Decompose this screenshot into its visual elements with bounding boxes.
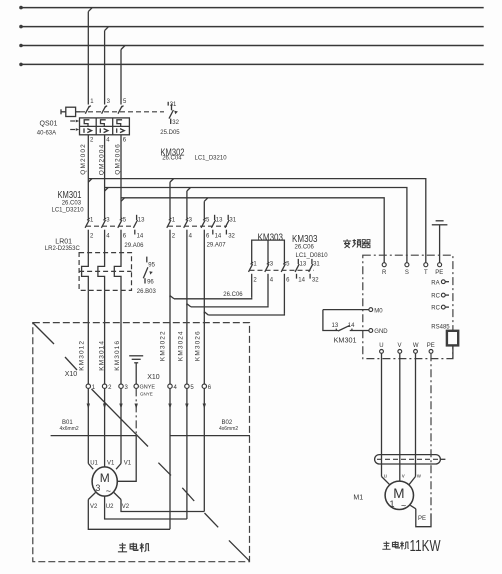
cable shield stadium — [375, 455, 446, 464]
svg-text:40-63A: 40-63A — [37, 130, 56, 136]
contactor KM302 pole 1 contact — [167, 218, 172, 297]
label 主电机 (main motor) — [118, 543, 149, 552]
svg-text:X10: X10 — [65, 371, 78, 378]
terminal X10-6 — [202, 384, 212, 391]
terminal X10-G GNYE — [134, 384, 155, 397]
wire V to motor M1 — [400, 353, 405, 481]
svg-text:KM3014: KM3014 — [98, 340, 105, 371]
svg-text:V2: V2 — [90, 504, 98, 510]
terminal RC 1 — [431, 293, 449, 300]
wire W to motor M1 — [409, 353, 421, 484]
svg-text:14: 14 — [298, 278, 305, 284]
contactor KM303 aux contact 31-32 — [309, 259, 313, 279]
magnetic release I> pole 3 — [117, 128, 125, 132]
svg-text:V2: V2 — [122, 504, 130, 510]
breaker QS01 trip unit box — [80, 118, 130, 135]
thermal release symbol pole 3 — [117, 120, 122, 127]
RS485 connector block — [447, 331, 458, 346]
contactor KM303 aux contact 13-14 — [295, 259, 299, 279]
svg-text:26.C06: 26.C06 — [223, 292, 243, 298]
wire X10-5 down with arrow — [185, 388, 188, 519]
svg-text:LC1_D3210: LC1_D3210 — [195, 156, 228, 162]
LR01 heater element pole 3 — [114, 253, 121, 291]
wire motor U2 return to X10-5 — [105, 496, 187, 519]
svg-text:13: 13 — [300, 262, 307, 268]
svg-text:v: v — [402, 474, 405, 480]
svg-text:32: 32 — [228, 233, 235, 239]
svg-text:KM301: KM301 — [58, 190, 82, 201]
svg-text:31: 31 — [170, 102, 177, 108]
wire GNYE ground dash-dot to motor frame — [118, 388, 138, 481]
svg-text:W: W — [413, 343, 419, 349]
svg-text:11KW: 11KW — [410, 538, 442, 555]
svg-text:KM303: KM303 — [258, 232, 284, 243]
inverter dash-dot box — [363, 255, 453, 358]
svg-text:31: 31 — [229, 218, 236, 224]
KM301 aux contact 13-14 in M0 loop — [323, 310, 369, 331]
wire PE dash-dot to motor M1 — [410, 353, 431, 526]
terminal X10-5 — [185, 384, 195, 391]
magnetic release I> pole 2 — [100, 128, 108, 132]
svg-text:w: w — [416, 474, 421, 480]
svg-text:U1: U1 — [90, 460, 98, 466]
svg-text:QS01: QS01 — [40, 121, 58, 128]
breaker QS01 mechanical link dashed — [80, 111, 164, 113]
wire drop from L1 to QS01 pole 1 — [88, 8, 92, 105]
svg-text:31: 31 — [313, 262, 320, 268]
wire KM303 pin2 to KM3022 (26.C06) — [170, 296, 252, 299]
svg-text:1: 1 — [390, 499, 395, 509]
terminal RC 2 — [431, 305, 449, 312]
wire KM3026 down to X10-6 — [203, 312, 205, 384]
label 主电机 11KW — [382, 538, 441, 555]
cable B02 label — [219, 420, 238, 432]
svg-text:RA: RA — [431, 280, 439, 286]
svg-text:25.D05: 25.D05 — [160, 130, 180, 136]
svg-text:KM3022: KM3022 — [160, 330, 167, 361]
KM301 linkage dashes — [86, 225, 133, 227]
terminal W — [413, 343, 419, 353]
wire branch down to KM302 pole 2 — [187, 188, 191, 219]
KM302 linkage dashes — [168, 225, 227, 227]
wire bus L3 — [19, 44, 484, 48]
svg-text:26.C03: 26.C03 — [62, 201, 82, 207]
wire X10-2 to motor V1 with arrow — [103, 388, 106, 467]
svg-text:13: 13 — [138, 218, 145, 224]
contactor KM301 pole 1 contact — [85, 218, 90, 253]
LR01 heater element pole 2 — [98, 253, 105, 291]
label 变频器 (inverter) — [343, 239, 370, 248]
svg-text:26.B03: 26.B03 — [137, 289, 157, 295]
terminal GND — [369, 329, 388, 336]
svg-text:M: M — [393, 486, 404, 501]
contactor KM302 aux contact 13-14 — [211, 215, 215, 235]
contactor KM302 pole 3 contact — [201, 218, 206, 313]
motor M1 11KW — [385, 481, 413, 510]
svg-text:4x6mm2: 4x6mm2 — [60, 426, 79, 432]
svg-text:M: M — [100, 471, 110, 485]
terminal RA — [431, 280, 449, 286]
contactor KM302 aux contact 31-32 — [225, 215, 229, 235]
contactor KM303 pole 3 contact — [281, 262, 286, 313]
thermal release symbol pole 2 — [101, 120, 106, 127]
svg-text:KM303: KM303 — [292, 234, 318, 245]
contactor KM303 star bus — [252, 240, 285, 263]
wire branch B from pole2 wire to inverter S — [105, 188, 407, 263]
svg-text:29.A06: 29.A06 — [124, 243, 144, 249]
motor M 3~ main — [92, 467, 117, 496]
contactor KM301 pole 2 contact — [101, 218, 106, 253]
svg-text:X10: X10 — [147, 374, 160, 381]
terminal S — [405, 263, 409, 277]
svg-text:RC: RC — [431, 294, 440, 300]
wire KM3014 — [104, 290, 106, 384]
svg-text:u: u — [384, 474, 387, 480]
svg-text:KM3012: KM3012 — [79, 340, 86, 371]
enclosure diagonal segment 2 — [65, 357, 77, 370]
wire drop from L2 to QS01 pole 2 — [105, 27, 109, 105]
svg-text:~: ~ — [401, 501, 406, 511]
svg-text:KM3016: KM3016 — [114, 340, 121, 371]
svg-text:R: R — [382, 270, 387, 276]
terminal PE top — [435, 263, 443, 277]
svg-text:M1: M1 — [353, 495, 363, 502]
cable B01 label — [60, 420, 79, 432]
label pointers to trip rows — [70, 120, 79, 131]
breaker QS01 handle — [61, 107, 80, 116]
terminal X10-3 — [119, 384, 129, 391]
wire bus L2 — [19, 25, 484, 29]
enclosure diagonal segment 1 — [33, 323, 54, 344]
enclosure diagonal segment 3 — [92, 389, 149, 447]
svg-text:13: 13 — [332, 323, 339, 329]
enclosure diagonal segment 6 — [205, 513, 219, 527]
contactor KM301 aux contact 13-14 — [133, 215, 137, 235]
svg-text:26.C06: 26.C06 — [295, 245, 315, 251]
wire X10-4 down with arrow — [168, 388, 171, 529]
LR01 heater element pole 1 — [82, 253, 89, 291]
wire QM2002 — [87, 135, 89, 219]
svg-text:U: U — [379, 343, 383, 349]
svg-text:96: 96 — [147, 280, 154, 286]
terminal PE bottom — [427, 343, 435, 353]
svg-text:KM3024: KM3024 — [177, 330, 184, 361]
svg-text:V: V — [398, 343, 402, 349]
wire KM3012 — [87, 290, 89, 384]
enclosure diagonal segment 5 — [182, 488, 194, 501]
terminal X10-4 — [168, 384, 178, 391]
breaker QS01 pole 3 contact — [118, 106, 124, 114]
svg-text:LC1_D3210: LC1_D3210 — [52, 208, 85, 214]
contactor KM303 pole 2 contact — [265, 262, 270, 305]
magnetic release I> pole 1 — [84, 128, 92, 132]
wire bus L4 — [19, 63, 484, 67]
wire X10-3 to motor W1 with arrow — [116, 388, 123, 469]
svg-text:LR01: LR01 — [55, 239, 72, 246]
svg-text:QM2006: QM2006 — [114, 143, 121, 175]
enclosure diagonal segment 7 — [229, 540, 249, 560]
wire KM303 pin6 to KM3026 — [204, 312, 284, 315]
svg-text:PE: PE — [427, 343, 435, 349]
terminal U — [379, 343, 383, 353]
solid edge below RS485 — [452, 345, 454, 358]
svg-text:~: ~ — [106, 486, 111, 496]
terminal R — [382, 263, 387, 277]
svg-text:GNYE: GNYE — [140, 385, 156, 391]
ground symbol above inverter PE — [432, 221, 448, 263]
svg-text:PE: PE — [435, 270, 443, 276]
wire X10-6 down with arrow — [203, 388, 206, 511]
wire U to motor M1 — [382, 353, 390, 484]
wire KM3022 down to X10-4 — [169, 296, 171, 384]
svg-text:32: 32 — [172, 120, 179, 126]
svg-text:13: 13 — [216, 218, 223, 224]
wire QM2006 — [120, 135, 122, 219]
wire branch down to KM302 pole 3 — [204, 198, 208, 219]
contactor KM301 pole 3 contact — [118, 218, 123, 253]
terminal X10-2 — [102, 384, 112, 391]
svg-text:M0: M0 — [374, 308, 383, 314]
terminal V — [398, 343, 402, 353]
LR01 linkage dashes — [79, 270, 131, 272]
contactor KM302 pole 2 contact — [184, 218, 189, 305]
svg-text:U2: U2 — [106, 504, 114, 510]
svg-text:26.C04: 26.C04 — [162, 156, 182, 162]
svg-text:KM3026: KM3026 — [195, 330, 202, 361]
svg-text:S: S — [405, 270, 409, 276]
wire KM303 pin4 to KM3024 — [187, 304, 268, 307]
svg-text:4x6mm2: 4x6mm2 — [219, 426, 238, 432]
ground symbol above X10 — [129, 356, 143, 384]
terminal T — [424, 263, 428, 277]
wire motor V2 return to X10-6 — [114, 493, 204, 512]
svg-text:QM2004: QM2004 — [98, 144, 105, 176]
wire bus L1 — [19, 6, 484, 10]
svg-text:PE: PE — [418, 516, 426, 522]
breaker QS01 aux contact 31-32 — [168, 102, 173, 124]
breaker QS01 pole 2 contact — [102, 106, 108, 114]
svg-text:3: 3 — [95, 483, 100, 493]
wire KM3024 down to X10-5 — [186, 304, 188, 384]
LR01 aux contact 95-96 — [143, 257, 153, 284]
wire KM3016 — [120, 290, 122, 384]
wire X10-1 to motor U1 with arrow — [87, 388, 94, 469]
svg-text:KM301: KM301 — [334, 335, 357, 344]
breaker QS01 pole 1 contact — [85, 106, 91, 114]
enclosure diagonal segment 4 — [158, 463, 171, 476]
terminal X10-1 — [86, 384, 96, 391]
thermal release symbol pole 1 — [84, 120, 89, 127]
svg-text:GNYE: GNYE — [140, 392, 153, 397]
svg-text:QM2002: QM2002 — [80, 143, 87, 175]
cable B01 line — [51, 435, 137, 437]
svg-text:32: 32 — [312, 278, 319, 284]
svg-text:95: 95 — [148, 263, 155, 269]
cable B02 line — [170, 435, 251, 437]
svg-text:V1: V1 — [124, 460, 132, 466]
wire branch down to KM302 pole 1 — [170, 179, 174, 219]
wire branch C from pole3 wire to inverter R — [121, 198, 384, 263]
wire drop from L3 to QS01 pole 3 — [121, 46, 125, 105]
wire motor W2 return to X10-4 — [88, 493, 170, 530]
KM303 linkage dashes — [250, 269, 315, 271]
wire QM2004 — [104, 135, 106, 219]
svg-text:GND: GND — [374, 329, 388, 335]
contactor KM303 pole 1 contact — [249, 262, 254, 297]
thermal relay LR01 dashed box — [79, 253, 131, 291]
terminal M0 — [323, 308, 383, 315]
svg-text:14: 14 — [348, 323, 355, 329]
svg-text:V1: V1 — [107, 460, 115, 466]
svg-text:14: 14 — [215, 233, 222, 239]
svg-text:LR2-D2353C: LR2-D2353C — [45, 246, 81, 252]
wire branch A from pole1 wire to inverter T — [88, 179, 426, 263]
svg-text:29.A07: 29.A07 — [207, 242, 227, 248]
svg-text:LC1_D0810: LC1_D0810 — [296, 253, 329, 259]
svg-text:T: T — [424, 270, 428, 276]
enclosure dashed box 主电机 — [33, 323, 250, 562]
svg-text:14: 14 — [137, 233, 144, 239]
svg-text:RC: RC — [431, 306, 440, 312]
